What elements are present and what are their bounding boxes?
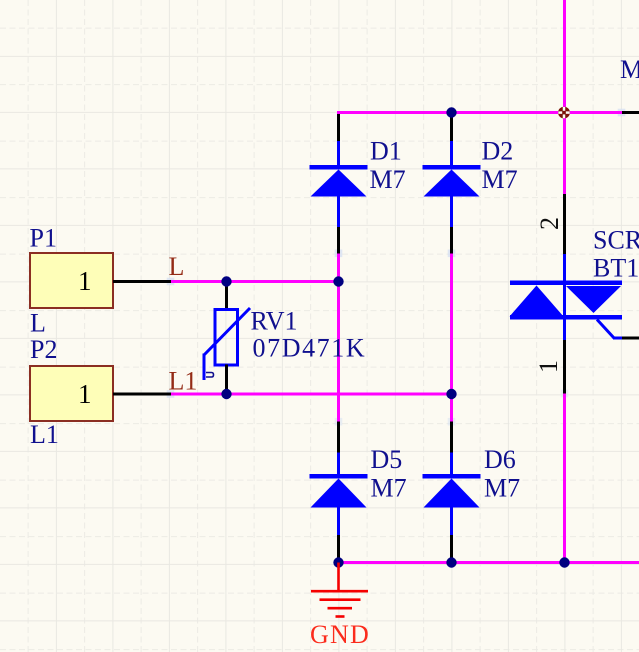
svg-text:D1: D1 xyxy=(370,137,402,166)
wire: L1 horizontal net xyxy=(171,393,453,396)
diode D5 xyxy=(310,422,407,563)
diode D2 xyxy=(423,114,518,254)
svg-text:M7: M7 xyxy=(620,55,639,84)
pin hotspot marker at D2 lower pin end xyxy=(448,250,456,258)
connector P1 xyxy=(30,224,172,338)
svg-text:SCR: SCR xyxy=(593,226,639,255)
varistor RV1 xyxy=(204,282,366,395)
svg-text:D5: D5 xyxy=(371,445,403,474)
svg-text:2: 2 xyxy=(535,217,564,230)
wire: triac pin1 vertical xyxy=(563,394,566,563)
ground symbol GND xyxy=(310,563,370,650)
svg-text:P1: P1 xyxy=(30,224,57,253)
svg-text:D6: D6 xyxy=(484,445,516,474)
pin hotspot marker at D1 lower pin end xyxy=(335,250,343,258)
junction dot at D6 top xyxy=(446,389,456,399)
wire: vertical net at top right xyxy=(563,0,566,194)
svg-text:L: L xyxy=(169,252,185,281)
svg-text:L1: L1 xyxy=(169,367,198,396)
diode D6 xyxy=(423,422,521,563)
svg-text:L1: L1 xyxy=(30,420,59,449)
diode D1 xyxy=(310,114,406,254)
svg-text:M7: M7 xyxy=(370,165,406,194)
svg-text:RV1: RV1 xyxy=(251,307,298,336)
svg-text:07D471K: 07D471K xyxy=(253,334,367,363)
pin hotspot marker at triac pin1 wire end xyxy=(561,390,569,398)
junction dot at RV1 bottom xyxy=(221,389,231,399)
junction dot at D6 bottom xyxy=(446,557,456,567)
wire: left column vertical (D1 to D5) xyxy=(337,254,340,422)
svg-text:1: 1 xyxy=(78,266,92,296)
svg-text:1: 1 xyxy=(78,379,92,409)
svg-text:M7: M7 xyxy=(371,474,407,503)
junction dot at D2 top xyxy=(446,107,456,117)
junction dot at D1 bottom xyxy=(333,276,343,286)
junction dot at GND tap xyxy=(333,557,343,567)
pin hotspot marker at D6 top pin end xyxy=(448,418,456,426)
wire: bottom horizontal rail xyxy=(339,561,639,564)
pin hotspot marker at D5 top pin end xyxy=(335,418,343,426)
svg-text:P2: P2 xyxy=(30,335,57,364)
svg-text:M7: M7 xyxy=(482,165,518,194)
cross junction marker at top rail crossing xyxy=(558,107,570,119)
svg-text:1: 1 xyxy=(534,360,563,373)
svg-text:D2: D2 xyxy=(482,137,514,166)
wire: L horizontal net xyxy=(171,280,340,283)
svg-text:M7: M7 xyxy=(484,474,520,503)
pin hotspot marker at top right pin xyxy=(618,109,626,117)
wire: middle column vertical (D2 to D6) xyxy=(450,254,453,422)
pin hotspot marker at L wire start xyxy=(167,278,175,286)
svg-text:GND: GND xyxy=(310,620,370,649)
pin hotspot marker at L1 wire start xyxy=(167,390,175,398)
connector P2 xyxy=(30,335,171,449)
junction dot at RV1 top xyxy=(221,276,231,286)
wire: top horizontal rail xyxy=(337,111,622,114)
svg-text:BT13: BT13 xyxy=(593,254,639,283)
svg-text:L: L xyxy=(30,309,46,338)
junction dot at triac bottom xyxy=(559,557,569,567)
triac BT1 (SCR) xyxy=(510,194,639,394)
pin of off-sheet part M at top right xyxy=(622,111,639,114)
